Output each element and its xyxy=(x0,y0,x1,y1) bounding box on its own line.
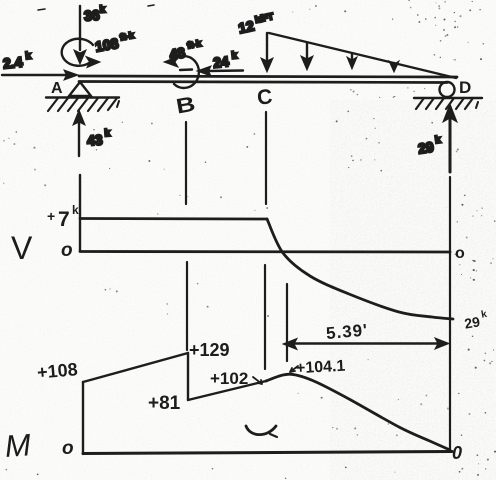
pin support at A xyxy=(69,82,91,96)
leader arrow for +104.1 xyxy=(290,366,298,372)
comma mark after hatch at D xyxy=(476,102,478,108)
svg-text:M: M xyxy=(4,427,32,464)
concavity smile mark xyxy=(246,426,276,435)
svg-text:+81: +81 xyxy=(148,393,181,414)
M diagram left edge xyxy=(82,382,84,454)
svg-text:k: k xyxy=(72,203,79,217)
ground line at A xyxy=(46,96,119,98)
reaction 29k arrow at D xyxy=(443,104,457,172)
svg-text:24: 24 xyxy=(212,53,229,71)
svg-text:o: o xyxy=(62,438,74,459)
distributed load slope line xyxy=(269,33,456,78)
M diagram baseline xyxy=(83,452,452,454)
distributed load arrow 3 xyxy=(347,54,357,69)
V +7k label xyxy=(47,203,79,231)
svg-text:+102: +102 xyxy=(210,369,248,388)
V -29k label xyxy=(463,309,490,332)
construction line at B xyxy=(186,122,187,350)
stray mark top middle xyxy=(148,5,154,6)
dimension line 5.39 xyxy=(283,338,449,350)
svg-text:o: o xyxy=(455,245,465,262)
reaction 43k arrow at A xyxy=(73,110,85,156)
dimension tick line at 5.39 xyxy=(286,284,288,361)
distributed load arrow 1 at C xyxy=(261,33,273,72)
svg-text:7: 7 xyxy=(58,208,70,231)
svg-text:29: 29 xyxy=(417,139,435,157)
force 24k arrow at A xyxy=(2,70,78,80)
force 24k arrow at B xyxy=(197,66,243,76)
label 43k xyxy=(86,128,111,149)
svg-text:V: V xyxy=(11,230,33,266)
stray mark top left xyxy=(38,9,45,10)
V diagram curve C to D (-29) xyxy=(267,219,453,319)
construction line at D xyxy=(449,177,451,450)
leader arrow for +102 xyxy=(253,377,262,384)
ground hatching at A xyxy=(48,98,117,111)
M drop at B xyxy=(187,353,189,400)
svg-text:+104.1: +104.1 xyxy=(296,358,346,378)
svg-text:B: B xyxy=(174,93,197,119)
construction line at C xyxy=(265,112,266,369)
V diagram left edge xyxy=(79,175,81,251)
svg-text:36: 36 xyxy=(83,7,100,24)
distributed load label 12 k/ft xyxy=(237,11,277,36)
label 24k xyxy=(2,51,33,72)
svg-text:+: + xyxy=(47,208,55,224)
svg-text:o: o xyxy=(61,240,73,261)
comma mark after hatch xyxy=(117,101,119,107)
label 108 ft-k xyxy=(94,30,137,55)
roller support at D xyxy=(440,82,455,97)
svg-text:2.4: 2.4 xyxy=(2,54,23,72)
label 29k at D xyxy=(417,134,443,156)
ground hatching at D xyxy=(416,98,473,109)
V diagram baseline xyxy=(80,250,450,253)
moment 108 ft-k circular arrow at A xyxy=(62,39,100,68)
force 36k arrow at A xyxy=(74,6,86,64)
V diagram top line (+7 plateau) xyxy=(80,217,267,220)
M segment A to B xyxy=(83,353,188,382)
svg-text:+129: +129 xyxy=(189,340,230,360)
svg-text:29: 29 xyxy=(463,313,481,331)
label 24k at B xyxy=(212,50,239,71)
beam AD (double line) xyxy=(79,76,457,83)
svg-text:0: 0 xyxy=(452,443,462,463)
distributed load arrow 4 xyxy=(389,61,399,72)
distributed load arrow 2 xyxy=(301,43,313,70)
svg-text:D: D xyxy=(459,78,471,97)
svg-text:43: 43 xyxy=(86,131,103,148)
svg-text:48: 48 xyxy=(168,44,186,62)
label 48 ft-k xyxy=(168,38,205,63)
moment 48 ft-k circular arrow at B xyxy=(164,56,199,88)
ground line at D xyxy=(414,97,482,99)
M segment B to C xyxy=(188,381,266,400)
svg-text:C: C xyxy=(256,85,273,109)
svg-text:+108: +108 xyxy=(36,359,78,382)
svg-text:5.39': 5.39' xyxy=(325,320,369,343)
label 36k xyxy=(83,4,106,23)
M curve C peak to D xyxy=(266,374,450,450)
svg-text:A: A xyxy=(51,80,63,97)
